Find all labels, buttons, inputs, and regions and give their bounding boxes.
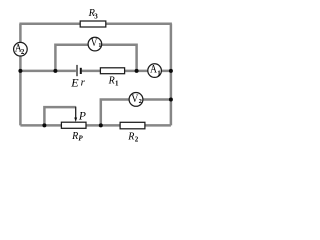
label R1 [108, 76, 119, 88]
label R3 [88, 8, 99, 21]
junction dot V1-right [135, 69, 139, 73]
resistor R3 [80, 21, 106, 27]
label R2 [127, 132, 138, 144]
label P [78, 110, 86, 122]
junction dot bottom-V2 [99, 123, 103, 127]
label A1 [150, 64, 161, 78]
arrow wiper pointer [75, 107, 77, 119]
junction dot right-middle [169, 69, 173, 73]
svg-text:R: R [71, 131, 78, 142]
junction dot left-middle [18, 69, 22, 73]
wire bottom [20, 124, 171, 127]
voltmeter V2 [129, 93, 143, 107]
svg-text:2: 2 [21, 49, 25, 56]
battery E r [77, 65, 81, 76]
svg-text:P: P [78, 134, 83, 142]
ammeter A1 [148, 64, 162, 78]
wire V1 branch [55, 45, 136, 71]
junction dot V1-left [53, 69, 57, 73]
svg-text:P: P [78, 110, 86, 122]
svg-text:A: A [150, 64, 157, 76]
voltmeter V1 [88, 37, 102, 51]
svg-text:2: 2 [135, 135, 139, 143]
wire right [170, 24, 173, 126]
wire top [19, 23, 172, 26]
svg-text:2: 2 [139, 98, 142, 105]
wire V2 branch [101, 100, 171, 126]
wire middle branch [20, 70, 171, 73]
junction dot right-V2 [169, 98, 173, 102]
resistor RP [61, 122, 86, 128]
label RP [71, 131, 83, 142]
svg-text:1: 1 [98, 43, 101, 49]
resistor R1 [100, 68, 124, 74]
junction dot bottom-wiper [42, 123, 46, 127]
svg-text:r: r [81, 77, 86, 89]
label A2 [15, 42, 25, 56]
ammeter A2 [14, 42, 28, 56]
svg-text:R: R [127, 132, 134, 143]
label V1 [91, 37, 102, 49]
wire rheostat wiper arm [44, 107, 75, 125]
wire left [19, 24, 22, 126]
svg-text:1: 1 [115, 80, 119, 88]
svg-text:R: R [108, 76, 115, 87]
svg-text:E: E [70, 76, 79, 90]
svg-text:V: V [91, 37, 98, 49]
svg-text:1: 1 [157, 69, 161, 77]
label E r [70, 76, 85, 90]
label V2 [131, 91, 142, 105]
svg-text:3: 3 [94, 13, 98, 21]
resistor R2 [120, 122, 145, 129]
